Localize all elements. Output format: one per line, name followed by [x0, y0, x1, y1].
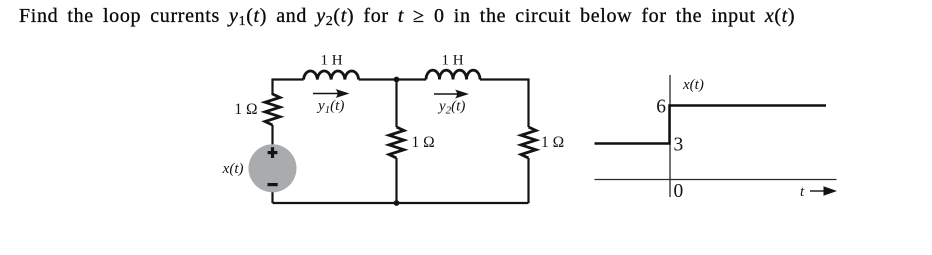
source plus sign — [268, 147, 278, 158]
node junction dot top — [394, 77, 400, 83]
svg-text:3: 3 — [674, 135, 684, 156]
inductor L1 1H — [304, 71, 359, 80]
current arrow y1 — [313, 89, 350, 98]
wire right-bottom segment — [527, 158, 529, 203]
resistor R1 1ohm left — [265, 94, 280, 125]
wire middle vertical top — [395, 80, 397, 128]
resistor R2 1ohm middle — [389, 127, 404, 158]
wire middle vertical bottom — [395, 158, 397, 203]
title text — [19, 5, 795, 28]
svg-text:y2(t): y2(t) — [437, 99, 465, 117]
wire R1 to source — [271, 125, 273, 146]
wire top-right segment — [480, 80, 529, 128]
wire bottom segment — [273, 202, 529, 204]
wire source to bottom — [271, 190, 273, 203]
current arrow y2 — [434, 90, 469, 99]
resistor R3 1ohm right — [521, 127, 536, 158]
svg-text:1 Ω: 1 Ω — [541, 134, 564, 151]
inductor L2 1H — [426, 70, 480, 79]
svg-text:t: t — [800, 184, 805, 200]
source minus sign — [268, 183, 278, 186]
graph signal x(t) step — [595, 106, 827, 144]
svg-text:6: 6 — [656, 97, 666, 118]
svg-text:1 Ω: 1 Ω — [234, 101, 257, 118]
svg-text:1 H: 1 H — [441, 53, 463, 69]
svg-text:x(t): x(t) — [222, 161, 244, 177]
graph t arrow — [810, 186, 837, 195]
source VS x(t) circle — [249, 144, 297, 192]
graph t-axis — [595, 179, 837, 181]
svg-text:x(t): x(t) — [682, 77, 704, 93]
graph y-axis — [669, 75, 671, 197]
wire top middle segment — [359, 78, 426, 80]
svg-text:0: 0 — [674, 181, 684, 202]
wire top-left segment — [273, 80, 304, 96]
svg-text:1 Ω: 1 Ω — [412, 134, 435, 151]
svg-text:y1(t): y1(t) — [316, 98, 344, 116]
svg-text:1 H: 1 H — [320, 53, 342, 69]
node junction dot bottom — [394, 200, 400, 206]
